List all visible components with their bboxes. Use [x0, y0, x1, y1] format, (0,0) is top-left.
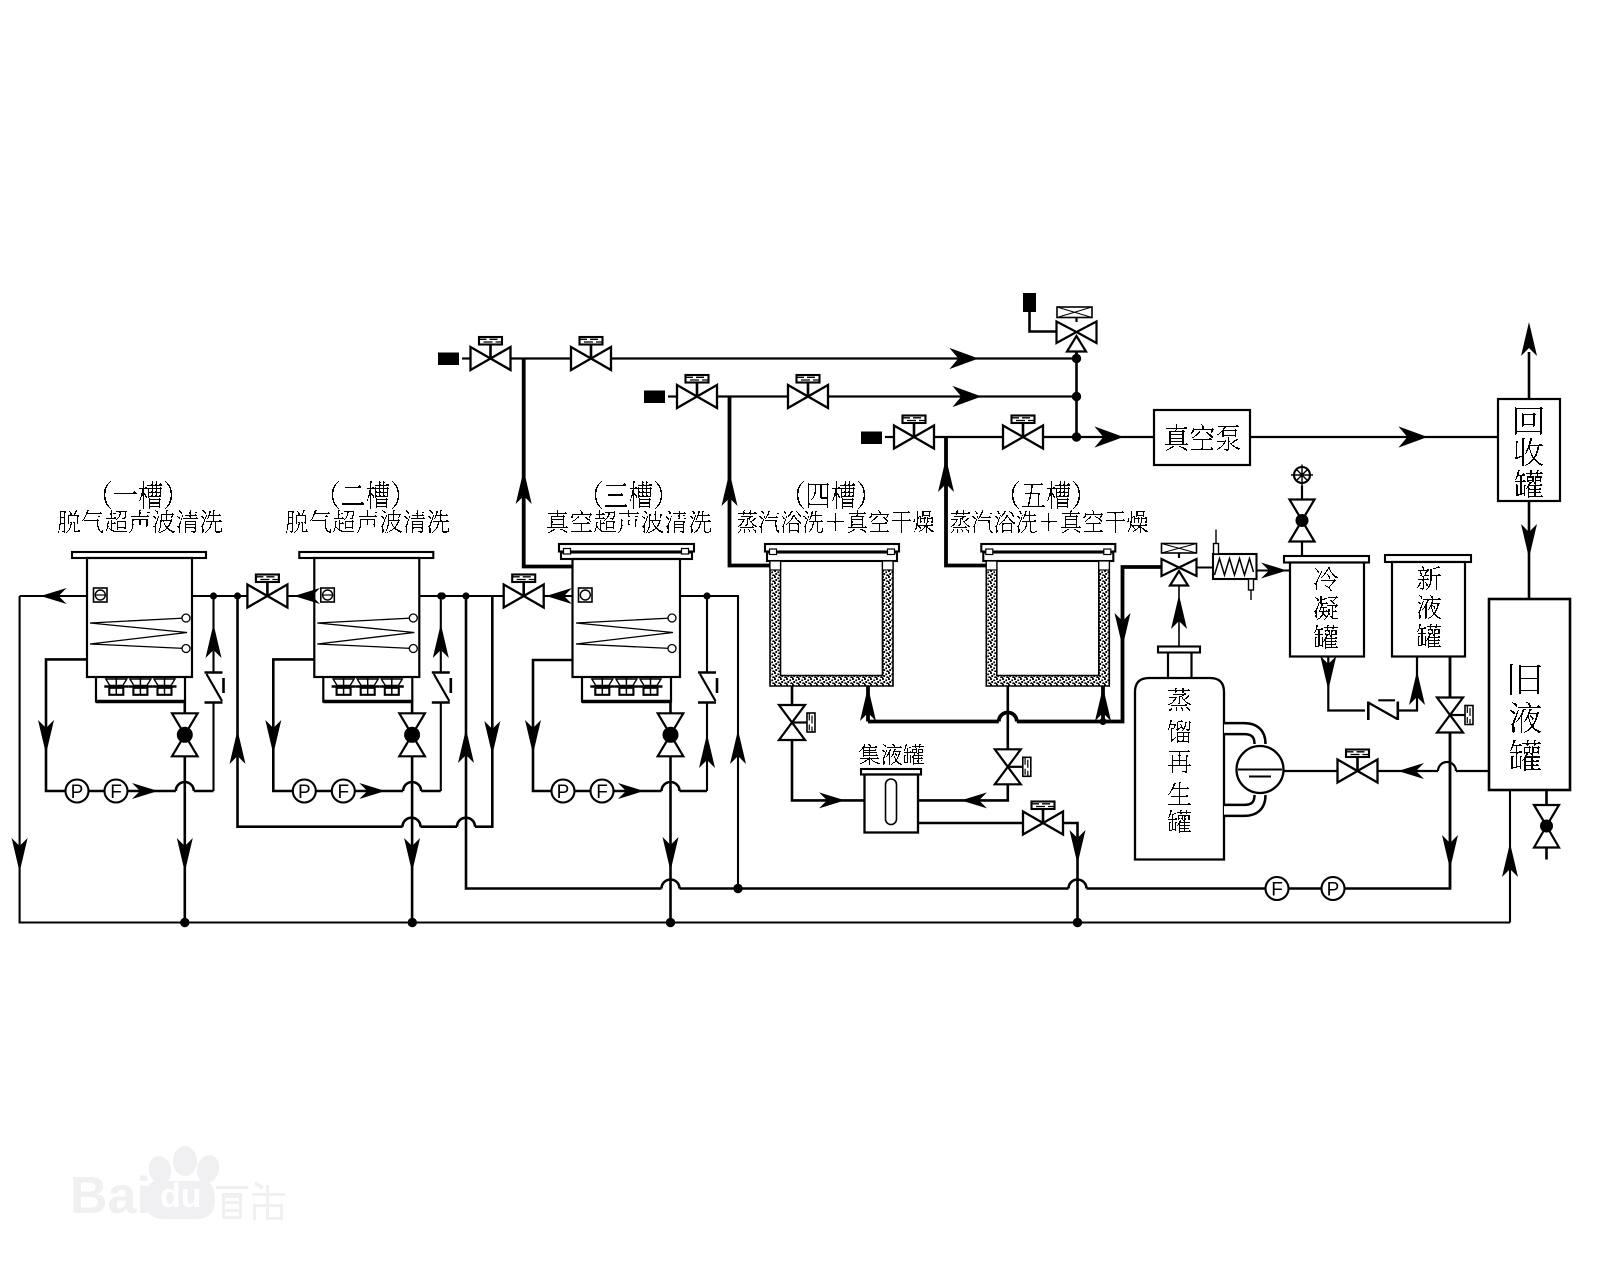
label 蒸汽浴洗＋真空干燥 T5	[951, 510, 1148, 533]
valve V13	[1437, 698, 1473, 733]
tank T2 inlet port	[321, 588, 335, 602]
wire: manifold riser	[1075, 352, 1078, 437]
tank T3 body	[573, 559, 681, 677]
air-break 3-way valve V7	[1057, 307, 1097, 352]
wire: T5 steam inlet	[1101, 686, 1105, 722]
wire: old liquid to pump	[1284, 770, 1338, 772]
valve V9 (T3 to T2)	[504, 575, 544, 608]
tank T5 insulated walls	[986, 561, 1109, 686]
label 蒸馏再生罐	[1168, 688, 1191, 711]
wire: steam bus	[868, 567, 1162, 722]
valve V1	[471, 337, 511, 370]
wire	[1289, 887, 1322, 890]
label 脱气超声波清洗 T1	[58, 510, 222, 533]
wire	[184, 756, 187, 922]
tank T3 inlet port	[579, 588, 593, 602]
label (一槽)	[104, 481, 172, 509]
svg-text:Bai: Bai	[70, 1167, 151, 1225]
wire: drain of T1	[184, 702, 187, 714]
tank T2 heater coil	[317, 618, 414, 649]
wire	[669, 756, 672, 922]
wire: waste bus y=922.5	[20, 596, 1510, 923]
label 蒸汽浴洗＋真空干燥 T4	[738, 510, 934, 533]
valve V12	[1338, 750, 1378, 783]
wire: T1-T2 transfer line	[192, 595, 247, 597]
valve V4	[788, 375, 828, 408]
wire: drain of T2	[411, 702, 414, 714]
wire: vacuum line 1	[462, 357, 471, 359]
label 新液罐	[1417, 566, 1441, 590]
tank T1 heater coil	[90, 618, 187, 649]
wire: T4 steam inlet	[866, 686, 870, 722]
wire: loop riser x=707	[706, 596, 708, 673]
tank T2 body	[314, 558, 419, 677]
wire: loop riser x=213.5	[212, 596, 214, 673]
label (三槽)	[595, 481, 662, 509]
recovery tank 回收罐	[1498, 399, 1560, 501]
label (四槽)	[797, 481, 865, 509]
wire: regen tank vapor to 3-way valve	[1178, 586, 1180, 647]
wire	[1301, 542, 1303, 557]
F meter (right)	[1266, 877, 1289, 900]
collection tank 集液罐	[861, 769, 921, 775]
transducer	[639, 677, 663, 696]
tank T5 lid plates	[981, 544, 1115, 552]
tank T3 lid plates	[559, 544, 694, 552]
label (二槽)	[332, 481, 399, 509]
tank T2 flange	[299, 552, 433, 558]
wire	[934, 436, 1003, 438]
tank T3 transducer box	[582, 677, 671, 702]
condenser tank 冷凝罐	[1284, 556, 1369, 563]
pump P1	[66, 780, 89, 803]
heat exchanger HX	[1213, 554, 1257, 579]
drain valve DV3	[658, 713, 684, 756]
wire	[1449, 733, 1452, 889]
valve V2	[571, 337, 611, 370]
svg-text:F: F	[1271, 880, 1283, 901]
label 集液罐	[859, 744, 924, 765]
safety relief assembly	[1294, 467, 1310, 483]
wire: new tank outlet	[1449, 657, 1452, 698]
wire: line 1 east run	[611, 357, 1077, 359]
strainer S3	[698, 673, 717, 703]
wire: bottom return riser into old tank	[1509, 790, 1511, 923]
node line1	[1073, 355, 1080, 362]
wire: condenser to new tank via check valve	[1328, 657, 1365, 711]
relief valve RV1	[1290, 500, 1315, 542]
transducer	[380, 677, 404, 696]
wire: to loop riser with crossover	[355, 790, 441, 793]
filter F3	[591, 780, 614, 803]
wire: vacuum line 2	[668, 395, 677, 397]
capped port stub A1	[438, 353, 459, 366]
wire	[411, 756, 414, 922]
wire: T5 drain to collect tank	[918, 784, 1008, 800]
tank T1 body	[87, 558, 192, 677]
P meter (right)	[1322, 877, 1345, 900]
label 冷凝罐	[1314, 567, 1338, 591]
wire: fresh supply bus y=888.5	[466, 596, 1266, 889]
tank T1 inlet port	[94, 588, 108, 602]
wire: line 3 to vacuum pump	[1043, 436, 1154, 438]
wire	[1075, 352, 1078, 359]
wire: vent to atmosphere	[1528, 352, 1531, 399]
wire	[1398, 657, 1417, 711]
transducer	[356, 677, 380, 696]
liquid-ring pump pipes	[1224, 729, 1260, 744]
capped stub of air-break valve	[1023, 293, 1036, 312]
wire: collect tank outlet	[918, 822, 1023, 825]
wire: valve to heat exchanger	[1197, 566, 1214, 568]
drain valve DV1	[172, 713, 198, 756]
3-way steam valve V11	[1162, 544, 1197, 586]
pump P3	[552, 780, 575, 803]
drain valve DV5	[995, 749, 1031, 784]
wire: T1 outlet to pump	[46, 659, 87, 779]
vacuum pump box	[1154, 410, 1250, 465]
wire: to loop riser with crossover	[128, 790, 214, 793]
transducer	[153, 677, 177, 696]
wire	[46, 780, 105, 792]
label 回收罐	[1515, 407, 1543, 435]
wire: T5 drain	[1006, 686, 1009, 749]
valve V6	[1003, 416, 1043, 449]
transducer	[614, 677, 638, 696]
transducer	[128, 677, 152, 696]
strainer S1	[205, 673, 224, 703]
label 真空超声波清洗	[547, 510, 711, 533]
svg-text:F: F	[337, 782, 349, 803]
wire: T3 outlet to pump	[533, 660, 573, 780]
capped port stub A2	[644, 391, 665, 404]
label 旧液罐	[1510, 664, 1541, 695]
wire: vacuum riser to T5	[946, 437, 986, 566]
wire: T3 right port to supply riser	[680, 596, 738, 889]
wire	[273, 780, 332, 792]
check valve CV1	[1368, 700, 1398, 720]
wire: line 2 east run	[828, 395, 1077, 397]
tank T4 lid plates	[765, 544, 899, 552]
label 脱气超声波清洗 T2	[286, 510, 449, 533]
valve V3	[677, 375, 717, 408]
old liquid tank 旧液罐	[1489, 599, 1570, 790]
wire: drain of T3	[669, 702, 672, 714]
tank T3 heater coil	[576, 618, 673, 649]
wire: T4 drain to collect tank	[792, 740, 865, 800]
old tank drain valve	[1545, 790, 1548, 805]
wire: supply bus east end riser (from new-liquid tank)	[1345, 657, 1451, 889]
svg-text:P: P	[557, 782, 570, 803]
valve V8 (T2 to T1)	[247, 575, 287, 608]
wire: vacuum line 3	[885, 436, 894, 438]
regen tank neck	[1158, 647, 1200, 653]
transducer	[590, 677, 614, 696]
wire: middle bus y=826.7 between tank1/2 and tank3	[238, 596, 493, 827]
svg-text:F: F	[110, 782, 122, 803]
drain valve DV4	[779, 705, 815, 740]
tank T1 flange	[72, 552, 206, 558]
wire	[533, 780, 591, 792]
strainer S2	[432, 673, 451, 703]
circulation pump	[1237, 746, 1284, 793]
new liquid tank 新液罐	[1385, 555, 1471, 562]
wire: pump to recovery tank	[1250, 436, 1498, 438]
wire	[1030, 312, 1057, 332]
svg-text:P: P	[298, 782, 311, 803]
distillation regeneration tank 蒸馏再生罐	[1135, 678, 1224, 860]
wire: to waste bus	[1063, 823, 1078, 923]
capped port stub A3	[861, 432, 882, 445]
wire: HX to condenser tank	[1257, 569, 1291, 571]
transducer	[332, 677, 356, 696]
wire: T2-T3 transfer line	[419, 595, 503, 597]
wire: T2 outlet to pump	[273, 659, 314, 779]
wire	[511, 357, 572, 359]
svg-text:F: F	[596, 782, 608, 803]
svg-text:P: P	[1327, 880, 1340, 901]
wire: recovery to old-liquid tank	[1528, 501, 1531, 599]
svg-text:du: du	[160, 1177, 202, 1215]
wire: vacuum riser to T4	[730, 397, 771, 566]
wire	[1378, 770, 1490, 772]
filter F1	[105, 780, 128, 803]
wire: loop riser x=440.8	[440, 596, 442, 673]
transducer	[104, 677, 128, 696]
filter F2	[332, 780, 355, 803]
pump P2	[293, 780, 316, 803]
tank T4 insulated walls	[770, 561, 893, 686]
label 真空泵	[1165, 424, 1240, 451]
wire: T4 drain	[791, 686, 794, 705]
wire: T1 left port to waste drop	[20, 595, 87, 597]
wire: drain stub	[1545, 848, 1548, 860]
drain valve DV2	[399, 713, 425, 756]
tank T2 transducer box	[323, 677, 412, 702]
valve V10	[1023, 802, 1063, 835]
valve V5	[894, 416, 934, 449]
wire	[717, 395, 788, 397]
svg-text:P: P	[71, 782, 84, 803]
wire: to loop riser with crossover	[614, 790, 708, 793]
tank T1 transducer box	[96, 677, 185, 702]
label (五槽)	[1012, 481, 1080, 509]
wire: vacuum riser to T3	[524, 359, 573, 567]
node line2	[1073, 393, 1080, 400]
